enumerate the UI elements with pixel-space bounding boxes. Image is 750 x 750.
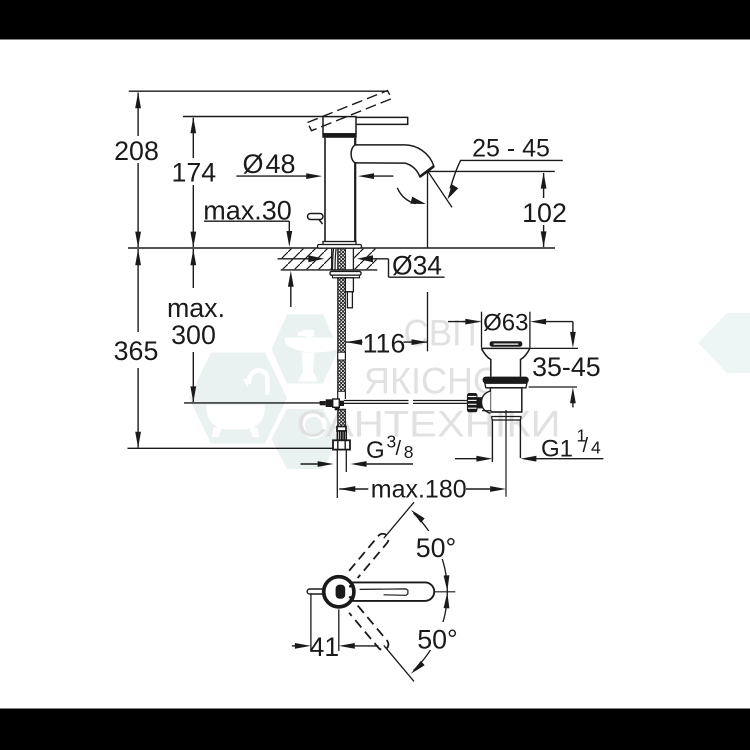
drain rubber seal — [483, 377, 529, 384]
hose stub above fitting — [337, 391, 339, 399]
drain lock ring — [485, 383, 527, 388]
dimension 116 — [346, 329, 428, 359]
dimension Ø48 — [236, 149, 393, 179]
threaded shank (crosshatch) — [338, 248, 346, 270]
top view: dashed lever +50 (up) — [349, 531, 391, 578]
174 reference line — [183, 116, 323, 118]
watermark washbasin icon — [285, 330, 347, 382]
shank hole edges — [331, 248, 333, 270]
label 50deg lower — [414, 622, 462, 650]
countertop cross-section bottom line — [281, 269, 378, 271]
label G1 1/4 — [541, 426, 601, 463]
G3/8 hex nut — [333, 440, 350, 449]
dimension Ø63 — [448, 309, 573, 347]
drain lever housing bulge — [482, 391, 491, 413]
drain adjusting knob — [467, 393, 478, 412]
watermark bathtub icon — [207, 371, 268, 438]
drain flange bell — [481, 348, 530, 376]
svg-text:max.: max. — [167, 293, 225, 323]
drain body — [490, 388, 521, 412]
svg-text:41: 41 — [310, 632, 339, 662]
faucet lever (horizontal) — [356, 117, 408, 124]
top reference line (208 level) — [129, 90, 388, 92]
drain tailpipe — [491, 420, 493, 462]
watermark ring icon — [303, 415, 325, 437]
mounting nut — [330, 271, 361, 275]
label G3/8 — [366, 432, 414, 465]
dimension Ø34 — [278, 251, 447, 281]
supply pipe below nut — [336, 450, 338, 498]
dimension G1 1/4 — [455, 456, 603, 462]
svg-text:G: G — [366, 437, 385, 464]
hose plain section — [337, 352, 339, 360]
svg-text:СВІТ: СВІТ — [404, 313, 484, 354]
watermark text — [297, 313, 561, 445]
svg-text:G1: G1 — [541, 436, 573, 463]
top view: dashed lever -50 (down) — [349, 606, 391, 653]
dimension 41 — [292, 594, 379, 663]
hose ribbed nut — [337, 431, 346, 440]
svg-text:102: 102 — [522, 198, 567, 228]
top view: spout nub — [307, 589, 325, 594]
hose collar — [337, 427, 346, 432]
dimension 174 — [171, 117, 216, 247]
bottom black bar — [0, 709, 750, 750]
dimension 365 — [114, 249, 159, 448]
svg-text:Ø63: Ø63 — [483, 309, 528, 336]
top black bar — [0, 0, 750, 40]
countertop line — [128, 247, 555, 249]
hose-end reference line (365 bottom) — [128, 447, 334, 449]
pull rod in shank — [333, 248, 337, 269]
drain body grooves — [491, 411, 521, 413]
svg-text:35-45: 35-45 — [532, 352, 601, 382]
horizontal pop-up rod — [344, 400, 409, 402]
svg-text:50°: 50° — [417, 625, 458, 655]
dimension 102 — [522, 173, 567, 248]
arc arrowheads — [411, 510, 425, 523]
svg-text:50°: 50° — [416, 533, 457, 563]
flexible hose upper section — [338, 278, 346, 352]
svg-text:300: 300 — [171, 320, 216, 350]
svg-text:25 - 45: 25 - 45 — [472, 134, 550, 162]
pop-up rod guide below counter — [345, 278, 353, 292]
spout swivel curved arrow — [397, 188, 416, 204]
dimension max.30 — [203, 196, 293, 307]
spout angle reference diagonal — [428, 171, 452, 207]
top view: lever ridge slot — [360, 589, 408, 595]
svg-text:Ø48: Ø48 — [242, 149, 295, 179]
hose-connection reference line (max.300 bottom) — [184, 402, 320, 404]
pull-rod knob — [308, 214, 324, 220]
spout outlet face — [420, 166, 434, 177]
dimension 208 — [114, 92, 159, 247]
dimension 35-45 — [529, 322, 601, 408]
dimension G3/8 — [301, 461, 414, 467]
top view: angle arc — [414, 513, 448, 670]
flexible hose middle section — [338, 360, 346, 391]
faucet dashed lever (raised position) — [308, 91, 392, 131]
drain pop-up cap — [490, 341, 523, 346]
faucet cartridge cap — [323, 117, 356, 134]
svg-text:/: / — [396, 438, 402, 460]
drain centerline — [505, 410, 507, 497]
label 50deg upper — [414, 531, 462, 559]
cap base thick band — [322, 134, 356, 138]
outlet height reference line — [428, 170, 555, 172]
watermark hexagon pattern — [189, 313, 750, 469]
svg-text:4: 4 — [591, 437, 601, 457]
faucet base plate — [323, 242, 356, 245]
top view: handle centerline — [408, 591, 455, 593]
dimension 25 - 45 with curved leader — [447, 134, 562, 199]
pop-up linkage fitting — [320, 399, 344, 410]
top view: 50deg extension lines — [384, 502, 414, 538]
top view: cartridge slot — [336, 585, 346, 599]
spout tip vertical reference — [427, 172, 429, 248]
top view: faucet body circle — [324, 577, 354, 607]
faucet body left edge — [324, 138, 326, 242]
top view: solid lever — [352, 582, 434, 601]
flexible hose lower section — [338, 409, 346, 426]
countertop hatching — [282, 249, 332, 270]
svg-text:Ø34: Ø34 — [392, 251, 442, 281]
faucet spout — [351, 145, 434, 177]
svg-text:116: 116 — [363, 329, 406, 359]
dimension max.180 — [339, 475, 506, 503]
svg-text:365: 365 — [114, 336, 159, 366]
svg-text:174: 174 — [171, 157, 216, 187]
dimension max.300 — [167, 249, 225, 402]
faucet body right edge — [354, 138, 356, 242]
svg-text:/: / — [583, 435, 589, 457]
svg-text:8: 8 — [404, 442, 414, 462]
svg-text:max.180: max.180 — [371, 475, 467, 503]
svg-text:208: 208 — [114, 136, 159, 166]
